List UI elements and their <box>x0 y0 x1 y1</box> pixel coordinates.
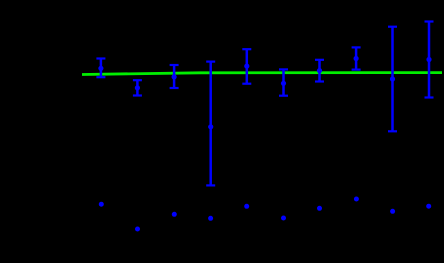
error bar 8 <box>352 47 361 69</box>
dot 2 <box>135 227 140 232</box>
error bar 2 <box>133 80 142 95</box>
dot 1 <box>99 202 104 207</box>
error bar 9 <box>388 27 397 132</box>
dot 5 <box>244 204 249 209</box>
dot 10 <box>426 204 431 209</box>
error bar 1 <box>96 59 105 78</box>
dot 8 <box>354 197 359 202</box>
dot 7 <box>317 206 322 211</box>
error bar 3 <box>170 65 179 88</box>
dot 4 <box>208 216 213 221</box>
error bar 5 <box>242 49 251 83</box>
dot 9 <box>390 209 395 214</box>
lower scatter series (blue dots) <box>99 197 431 232</box>
error bar 6 <box>279 69 288 95</box>
error bar 7 <box>315 60 324 82</box>
error bar series (blue) <box>96 22 433 186</box>
fit line (green) <box>82 73 442 75</box>
dot 6 <box>281 216 286 221</box>
error bar 4 <box>206 62 215 186</box>
error bar 10 <box>425 22 434 98</box>
dot 3 <box>172 212 177 217</box>
